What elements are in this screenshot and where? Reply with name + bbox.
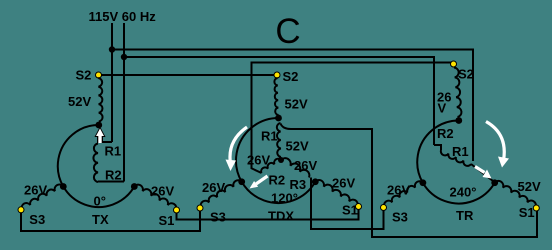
wire TX R1 lead stub — [97, 141, 112, 143]
svg-text:S1: S1 — [342, 203, 358, 218]
wire TDX R2 to TR S2 — [252, 63, 454, 174]
terminal TX S3 — [18, 207, 24, 213]
svg-text:S2: S2 — [458, 67, 474, 82]
svg-text:R1: R1 — [261, 129, 278, 144]
rotor arrow TDX (120 deg) — [250, 176, 268, 189]
wire TDX R1 to TR S1 — [281, 124, 538, 238]
svg-text:52V: 52V — [518, 179, 541, 194]
svg-text:S3: S3 — [29, 212, 45, 227]
coil TX S3 26V — [22, 184, 64, 209]
svg-text:26V: 26V — [24, 183, 47, 198]
svg-text:120°: 120° — [271, 191, 298, 206]
junction supply lower — [121, 54, 127, 60]
node TDX stator right — [312, 178, 319, 185]
coil TX S2 52V — [98, 78, 102, 122]
wire TR R2 lead — [434, 145, 441, 150]
terminal TX S1 — [174, 207, 180, 213]
svg-text:S2: S2 — [283, 69, 299, 84]
wire 60Hz vertical (TX R2 lead) — [123, 23, 125, 182]
svg-text:S3: S3 — [392, 210, 408, 225]
node TX stator right — [131, 183, 138, 190]
terminal TDX S3 — [197, 205, 203, 211]
terminal TR S3 — [381, 205, 387, 211]
svg-text:V: V — [438, 101, 447, 116]
wire TX S1 to TDX S1 — [177, 209, 359, 220]
node TDX stator left — [238, 178, 245, 185]
svg-text:240°: 240° — [450, 185, 477, 200]
stator circle TX — [58, 125, 135, 207]
terminal TDX S2 — [274, 72, 280, 78]
svg-text:S3: S3 — [210, 210, 226, 225]
svg-text:C: C — [275, 12, 300, 51]
rotation arrow TR (cw) — [486, 122, 509, 168]
node TX rotor top — [95, 122, 102, 129]
svg-text:26V: 26V — [294, 158, 317, 173]
coil TDX S2 52V — [274, 78, 278, 115]
rotor coil TR R2-R1 — [441, 150, 471, 166]
svg-text:0°: 0° — [94, 194, 106, 209]
coil TR S2 26V — [454, 68, 461, 118]
svg-text:TDX: TDX — [268, 209, 294, 224]
rotor arrow TX (0 deg) — [95, 127, 106, 144]
rotor arrow TR (240 deg) — [475, 167, 492, 179]
rotor coil TDX R3 — [281, 158, 309, 177]
coil TR S1 52V — [495, 181, 536, 207]
node TX stator left — [60, 183, 67, 190]
rotor coil TX R1-R2 — [93, 144, 98, 183]
coil TR S3 26V — [384, 181, 423, 207]
svg-text:26V: 26V — [387, 183, 410, 198]
svg-text:R2: R2 — [105, 168, 122, 183]
terminal TX S2 — [96, 72, 102, 78]
svg-text:R2: R2 — [437, 126, 454, 141]
svg-text:26V: 26V — [151, 184, 174, 199]
wire TR rotor to right node — [471, 164, 493, 181]
svg-text:52V: 52V — [286, 139, 309, 154]
wire 115V vertical (TX R1 lead) — [111, 23, 113, 142]
terminal TDX S1 — [356, 204, 362, 210]
svg-text:R2: R2 — [269, 173, 286, 188]
terminal TR S1 — [533, 205, 539, 211]
rotation arrow TDX (ccw) — [226, 127, 248, 171]
svg-text:26V: 26V — [202, 180, 225, 195]
stator circle TDX — [236, 118, 315, 203]
svg-text:R1: R1 — [105, 144, 122, 159]
svg-text:S1: S1 — [519, 205, 535, 220]
node TR stator left — [420, 179, 427, 186]
svg-text:115V 60 Hz: 115V 60 Hz — [89, 9, 157, 24]
svg-text:S1: S1 — [159, 213, 175, 228]
coil TDX S3 26V — [201, 180, 242, 207]
junction supply upper — [109, 46, 115, 52]
wire TX S3 to TDX S3 — [21, 210, 200, 232]
node TDX stator top — [275, 115, 282, 122]
svg-text:R1: R1 — [452, 144, 469, 159]
node TR stator top — [455, 117, 462, 124]
node TDX rotor center — [278, 157, 284, 163]
svg-text:TR: TR — [456, 208, 474, 223]
node TR stator right — [491, 179, 498, 186]
wire TDX R3 to TR S3 — [311, 178, 384, 230]
svg-text:S2: S2 — [76, 68, 92, 83]
svg-text:TX: TX — [92, 212, 109, 227]
rotor coil TDX R1 — [277, 123, 281, 157]
wire TX S2 to TDX S2 — [101, 74, 277, 76]
wire TX R2 lead stub — [98, 181, 124, 183]
svg-text:52V: 52V — [68, 94, 91, 109]
rotor coil TDX R2 — [261, 159, 281, 173]
svg-text:52V: 52V — [285, 97, 308, 112]
coil TDX S1 26V — [315, 180, 358, 206]
wire supply bus upper (to TR R1) — [112, 50, 473, 162]
stator circle TR — [417, 120, 494, 203]
terminal TR S2 — [451, 61, 457, 67]
wire supply bus lower (to TR R2) — [124, 57, 434, 145]
svg-text:26V: 26V — [332, 176, 355, 191]
coil TX S1 26V — [134, 185, 176, 210]
